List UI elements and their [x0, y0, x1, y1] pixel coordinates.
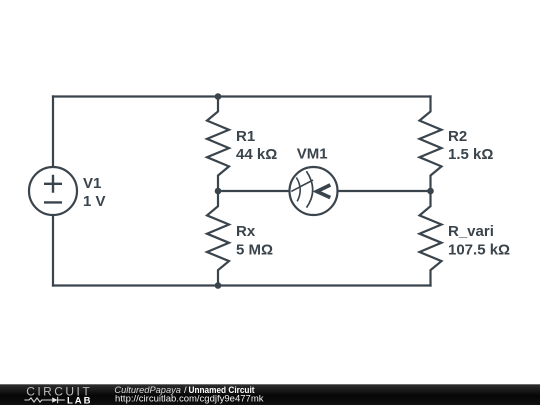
voltage source V1 — [29, 167, 77, 215]
resistor R1 — [207, 97, 229, 192]
svg-text:R_vari: R_vari — [448, 223, 494, 240]
svg-text:R1: R1 — [236, 128, 255, 145]
node dot bottom middle — [215, 282, 222, 289]
node dot mid middle — [215, 188, 222, 195]
wire bottom — [53, 284, 431, 286]
wire middle right — [338, 190, 431, 192]
voltmeter VM1 — [290, 167, 338, 215]
svg-text:http://circuitlab.com/cgdjfy9e: http://circuitlab.com/cgdjfy9e477mk — [115, 393, 264, 403]
svg-text:V1: V1 — [83, 175, 101, 192]
resistor Rx — [207, 191, 229, 286]
resistor R2 — [420, 97, 442, 192]
svg-text:Rx: Rx — [236, 223, 256, 240]
logo resistor zigzag and diode — [24, 397, 64, 403]
wire left lower — [52, 215, 54, 286]
svg-text:1.5 kΩ: 1.5 kΩ — [448, 146, 493, 163]
svg-text:107.5 kΩ: 107.5 kΩ — [448, 242, 510, 259]
svg-text:R2: R2 — [448, 128, 467, 145]
wire top — [53, 95, 431, 97]
wire middle left — [218, 190, 290, 192]
resistor R_vari — [420, 191, 442, 286]
svg-text:VM1: VM1 — [297, 146, 328, 163]
wire left upper — [52, 97, 54, 168]
svg-text:1 V: 1 V — [83, 193, 106, 210]
node dot mid right — [427, 188, 434, 195]
svg-text:44 kΩ: 44 kΩ — [236, 146, 277, 163]
node dot top middle — [215, 93, 222, 100]
footer bar — [0, 384, 540, 405]
svg-text:LAB: LAB — [67, 396, 91, 405]
svg-text:5 MΩ: 5 MΩ — [236, 242, 273, 259]
